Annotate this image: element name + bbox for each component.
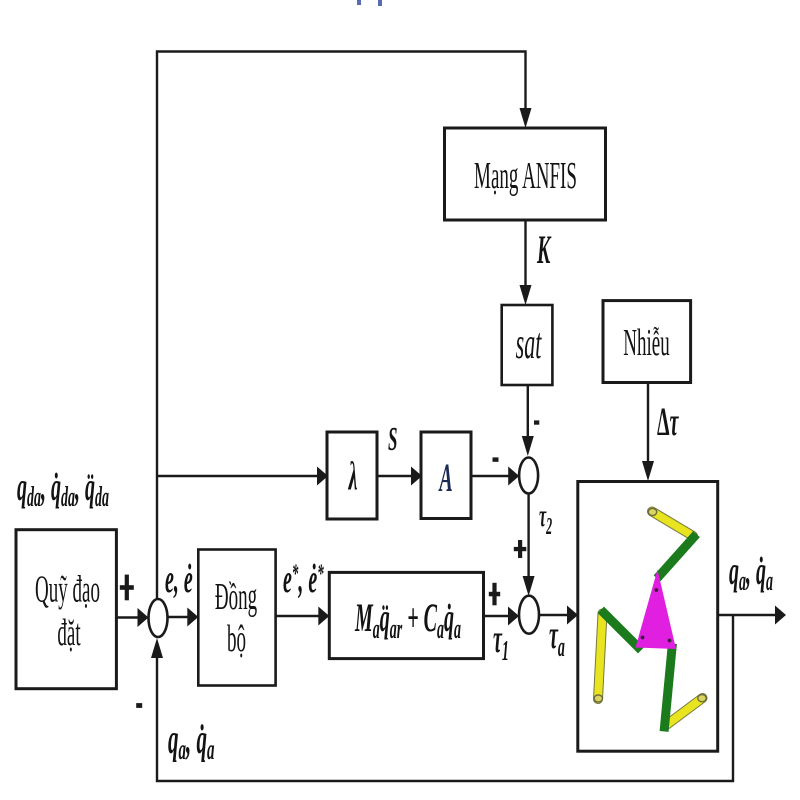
svg-text:Nhiễu: Nhiễu [623, 322, 669, 364]
svg-text:Quỹ đạo: Quỹ đạo [35, 569, 100, 611]
svg-text:A: A [438, 456, 453, 500]
svg-text:S: S [388, 420, 397, 458]
svg-text:K: K [536, 228, 551, 272]
svg-text:Mạng ANFIS: Mạng ANFIS [474, 155, 577, 197]
svg-text:Maq̈ar + Caq̇a: Maq̈ar + Caq̇a [354, 596, 461, 645]
svg-text:đặt: đặt [57, 612, 81, 654]
svg-text:λ: λ [347, 454, 357, 498]
svg-text:Δτ: Δτ [657, 399, 679, 443]
svg-text:bộ: bộ [227, 618, 246, 660]
svg-text:sat: sat [516, 319, 543, 368]
svg-text:e, ė: e, ė [165, 557, 193, 601]
svg-text:Đồng: Đồng [215, 576, 257, 618]
